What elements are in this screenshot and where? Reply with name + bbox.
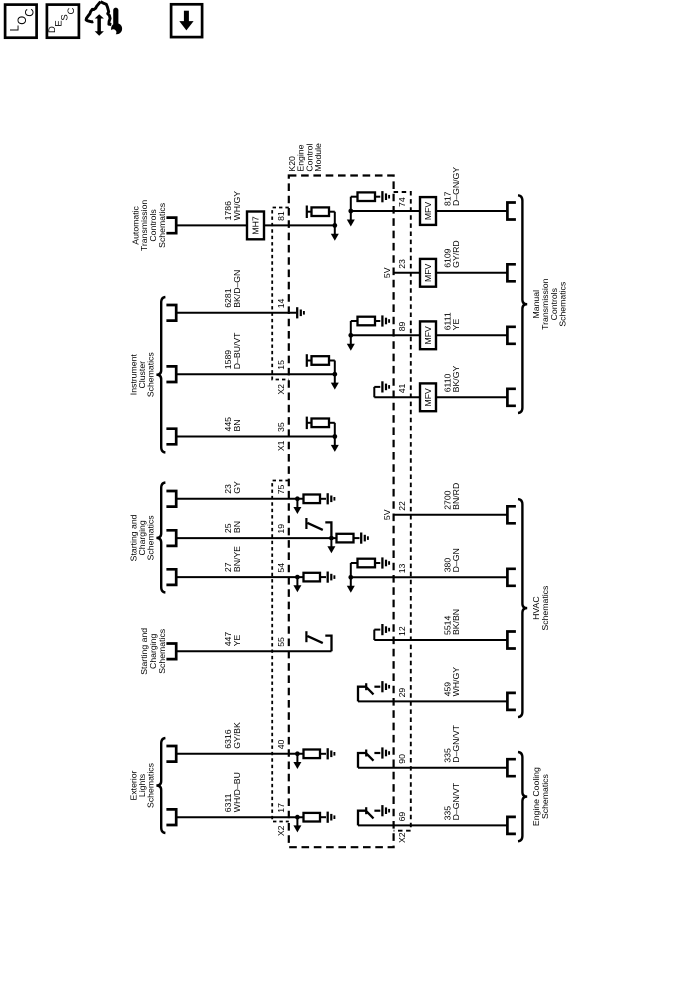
- svg-text:BN: BN: [232, 419, 242, 431]
- label Automatic Transmission Controls Schematics: [130, 200, 166, 251]
- svg-text:WH/GY: WH/GY: [232, 191, 242, 221]
- label wire 380 D–GN: [442, 548, 461, 572]
- ECM internal ground (pin 12): [374, 630, 380, 640]
- label wire 6311 WH/D–BU: [223, 772, 242, 812]
- svg-text:X2: X2: [276, 825, 286, 836]
- label Starting and Charging Schematics: [128, 514, 155, 561]
- off-page connector (pin 74): [507, 203, 516, 220]
- svg-text:Schematics: Schematics: [540, 585, 550, 631]
- svg-text:75: 75: [276, 484, 286, 494]
- svg-text:D–GN/GY: D–GN/GY: [451, 167, 461, 206]
- ground (pin 17): [328, 812, 335, 823]
- svg-text:WH/D–BU: WH/D–BU: [232, 772, 242, 812]
- wire circuit 335 D–GN/VT from pin 90: [358, 767, 507, 769]
- wire: [320, 576, 326, 578]
- label K20 Engine Control Module: [287, 143, 323, 172]
- brace HVAC group: [518, 499, 527, 717]
- label Starting and Charging Schematics (pin 55): [139, 628, 167, 675]
- label wire 6281 BK/D–GN: [223, 270, 242, 308]
- wire circuit 25 BN to pin 19: [176, 537, 336, 539]
- inline connector MH7: [247, 212, 264, 240]
- wire circuit 6109 GY/RD from pin 23: [394, 272, 420, 274]
- svg-text:81: 81: [276, 211, 286, 221]
- svg-text:Schematics: Schematics: [157, 628, 167, 674]
- svg-text:35: 35: [276, 422, 286, 432]
- junction node (pin 17): [295, 815, 300, 820]
- svg-text:55: 55: [276, 637, 286, 647]
- svg-text:D–GN/VT: D–GN/VT: [451, 724, 461, 762]
- signal arrow (pin 15): [331, 374, 339, 389]
- signal arrow (pin 35): [331, 437, 339, 452]
- off-page connector (pin 29): [507, 693, 516, 710]
- ground (pin 74): [382, 191, 389, 202]
- svg-text:54: 54: [276, 563, 286, 573]
- label wire 1786 WH/GY: [223, 191, 242, 221]
- ECM internal resistor to ground (pin 75): [304, 495, 321, 504]
- inline connector MFV (pin 89): [420, 321, 436, 349]
- signal arrow (pin 19): [327, 538, 335, 553]
- ground (pin 75): [328, 493, 335, 504]
- wire: [354, 537, 360, 539]
- label wire 23 GY: [223, 481, 242, 494]
- off-page connector (pin 13): [507, 569, 516, 586]
- off-page connector (pin 14): [166, 305, 176, 321]
- wire circuit 6316 GY/BK to pin 40: [176, 753, 303, 755]
- junction node (pin 81): [332, 223, 337, 228]
- connector X2 dotted box (left top): [272, 208, 289, 380]
- off-page connector (pin 22): [507, 506, 516, 523]
- svg-text:BN/RD: BN/RD: [451, 483, 461, 510]
- svg-text:MFV: MFV: [423, 388, 433, 407]
- ECM internal switch to ground (pin 69): [358, 807, 380, 825]
- junction node (pin 54): [295, 575, 300, 580]
- signal arrow (pin 17): [293, 817, 301, 832]
- wire circuit 459 WH/GY from pin 29: [358, 700, 507, 702]
- svg-text:22: 22: [397, 501, 407, 511]
- junction node (pin 13): [348, 575, 353, 580]
- off-page connector (pin 81): [166, 218, 176, 234]
- connector X2 dotted box (left bottom): [272, 481, 289, 822]
- ground (pin 69): [382, 805, 389, 816]
- off-page connector (pin 23): [507, 264, 516, 281]
- svg-text:BN: BN: [232, 521, 242, 533]
- wire circuit 817 D–GN/GY from pin 74: [351, 210, 420, 212]
- label wire 25 BN: [223, 521, 242, 533]
- svg-text:89: 89: [397, 321, 407, 331]
- brace Instrument Cluster group: [156, 297, 165, 453]
- ECM internal switch (pin 55): [306, 631, 331, 651]
- svg-text:74: 74: [397, 197, 407, 207]
- wire circuit 5514 BK/BN from pin 12: [374, 639, 507, 641]
- brace Exterior Lights group: [156, 738, 165, 833]
- svg-text:Schematics: Schematics: [558, 281, 568, 327]
- svg-text:Schematics: Schematics: [145, 352, 155, 398]
- ground (pin 19): [361, 533, 368, 544]
- svg-text:C: C: [25, 8, 37, 16]
- svg-text:29: 29: [397, 688, 407, 698]
- svg-text:Module: Module: [313, 143, 323, 172]
- svg-text:5V: 5V: [382, 509, 392, 520]
- wire circuit 6111 YE from pin 89: [351, 334, 420, 336]
- svg-text:X2: X2: [397, 832, 407, 843]
- ground (pin 89): [382, 315, 389, 326]
- inline connector MFV (pin 74): [420, 197, 436, 225]
- signal arrow (pin 75): [293, 499, 301, 514]
- ground (pin 90): [382, 747, 389, 758]
- label HVAC Schematics: [531, 585, 550, 631]
- label wire 5514 BK/BN: [442, 609, 461, 635]
- svg-text:23: 23: [397, 259, 407, 269]
- wire: [320, 816, 326, 818]
- wire circuit 27 BN/YE to pin 54: [176, 576, 303, 578]
- wire circuit 445 BN to pin 35: [176, 436, 335, 438]
- svg-text:41: 41: [397, 383, 407, 393]
- off-page connector (pin 55): [166, 644, 176, 660]
- svg-text:YE: YE: [232, 635, 242, 647]
- ECM internal pull-up resistor (pin 81): [307, 206, 335, 226]
- ground (pin 14): [297, 307, 304, 318]
- label wire 6110 BK/GY: [442, 366, 461, 393]
- ECM internal pull-up resistor (pin 15): [307, 354, 335, 374]
- svg-text:MFV: MFV: [423, 263, 433, 282]
- label wire 6316 GY/BK: [223, 722, 242, 749]
- off-page connector (pin 69): [507, 817, 516, 834]
- junction node (pin 19): [329, 536, 334, 541]
- ECM internal pull-up resistor (pin 35): [307, 417, 335, 437]
- svg-text:D–BU/VT: D–BU/VT: [232, 332, 242, 369]
- label wire 335 D–GN/VT: [442, 782, 461, 820]
- svg-text:D–GN/VT: D–GN/VT: [451, 782, 461, 820]
- inline connector MFV (pin 23): [420, 259, 436, 287]
- svg-text:Schematics: Schematics: [157, 202, 167, 248]
- svg-text:Schematics: Schematics: [540, 773, 550, 819]
- off-page connector (pin 15): [166, 366, 176, 382]
- wire: [320, 498, 326, 500]
- off-page connector (pin 17): [166, 809, 176, 825]
- svg-text:69: 69: [397, 812, 407, 822]
- off-page connector (pin 90): [507, 759, 516, 776]
- ECM internal switch to ground (pin 90): [358, 750, 380, 768]
- icon vehicle outline with up-down arrow and wrench: [86, 2, 122, 36]
- svg-text:5V: 5V: [382, 267, 392, 278]
- off-page connector (pin 19): [166, 530, 176, 546]
- svg-text:X1: X1: [276, 440, 286, 451]
- junction node (pin 74): [348, 209, 353, 214]
- label wire 2700 BN/RD: [442, 483, 461, 510]
- wire circuit 6311 WH/D–BU to pin 17: [176, 816, 303, 818]
- signal arrow (pin 54): [293, 577, 301, 592]
- junction node (pin 89): [348, 333, 353, 338]
- ECM internal switch (pin 19): [306, 518, 331, 538]
- junction node (pin 40): [295, 751, 300, 756]
- off-page connector (pin 35): [166, 429, 176, 445]
- svg-text:MH7: MH7: [251, 216, 261, 235]
- label wire 335 D–GN/VT: [442, 724, 461, 762]
- ground (pin 29): [382, 681, 389, 692]
- svg-text:19: 19: [276, 524, 286, 534]
- wire: [436, 396, 507, 398]
- ECM internal pull-up resistor to ground (pin 89): [351, 317, 381, 336]
- label wire 27 BN/YE: [223, 546, 242, 572]
- inline connector MFV (pin 41): [420, 383, 436, 411]
- svg-text:X2: X2: [276, 384, 286, 395]
- wire circuit 1589 D–BU/VT to pin 15: [176, 373, 335, 375]
- icon down-arrow box: [171, 4, 202, 37]
- junction node (pin 15): [332, 372, 337, 377]
- svg-text:MFV: MFV: [423, 202, 433, 221]
- off-page connector (pin 41): [507, 389, 516, 406]
- brace Starting and Charging group: [156, 483, 165, 593]
- wire circuit 2700 BN/RD from pin 22: [394, 514, 508, 516]
- svg-text:40: 40: [276, 739, 286, 749]
- off-page connector (pin 89): [507, 327, 516, 344]
- wire circuit 23 GY to pin 75: [176, 498, 303, 500]
- wire circuit 6110 BK/GY from pin 41: [374, 396, 420, 398]
- svg-text:BK/BN: BK/BN: [451, 609, 461, 635]
- wire circuit 380 D–GN from pin 13: [351, 576, 508, 578]
- off-page connector (pin 40): [166, 746, 176, 762]
- svg-text:GY/BK: GY/BK: [232, 722, 242, 749]
- svg-text:BK/D–GN: BK/D–GN: [232, 270, 242, 308]
- signal arrow (pin 13): [347, 577, 355, 593]
- svg-text:GY/RD: GY/RD: [451, 240, 461, 268]
- svg-text:YE: YE: [451, 319, 461, 331]
- svg-text:WH/GY: WH/GY: [451, 667, 461, 697]
- signal arrow (pin 81): [331, 225, 339, 240]
- ground (pin 40): [328, 748, 335, 759]
- icon LOC box: [5, 5, 37, 38]
- junction node (pin 35): [332, 434, 337, 439]
- wire: [436, 272, 507, 274]
- ECM internal switch to ground (pin 29): [358, 683, 380, 701]
- brace Manual Transmission group: [518, 195, 527, 413]
- signal arrow (pin 74): [347, 211, 355, 227]
- svg-text:BN/YE: BN/YE: [232, 546, 242, 572]
- svg-text:BK/GY: BK/GY: [451, 366, 461, 393]
- svg-text:14: 14: [276, 298, 286, 308]
- brace Engine Cooling group: [518, 752, 527, 841]
- label wire 445 BN: [223, 417, 242, 432]
- svg-text:Schematics: Schematics: [145, 515, 155, 561]
- ECM internal pull-up resistor to ground (pin 74): [351, 192, 381, 211]
- label Manual Transmission Controls Schematics: [531, 278, 567, 329]
- off-page connector (pin 12): [507, 632, 516, 649]
- svg-text:C: C: [66, 7, 77, 14]
- wire circuit 447 YE to pin 55: [176, 650, 331, 652]
- label Engine Cooling Schematics: [531, 767, 550, 826]
- signal arrow (pin 40): [293, 754, 301, 769]
- off-page connector (pin 75): [166, 491, 176, 507]
- ECM internal resistor to ground (pin 54): [304, 573, 321, 582]
- svg-text:90: 90: [397, 754, 407, 764]
- label Exterior Lights Schematics: [128, 762, 155, 808]
- wire: [436, 334, 507, 336]
- label wire 6109 GY/RD: [442, 240, 461, 268]
- svg-text:12: 12: [397, 626, 407, 636]
- svg-text:MFV: MFV: [423, 326, 433, 345]
- ECM internal resistor to ground (pin 40): [304, 750, 321, 759]
- label wire 447 YE: [223, 632, 242, 647]
- svg-text:15: 15: [276, 360, 286, 370]
- ECM internal resistor to ground (pin 19): [337, 534, 354, 543]
- ECM internal pull-up resistor to ground (pin 13): [351, 559, 381, 578]
- wire circuit 1786 WH/GY to pin 81: [176, 224, 335, 226]
- label wire 6111 YE: [442, 312, 461, 330]
- wire circuit 6281 BK/D–GN to pin 14: [176, 312, 296, 314]
- ECM internal ground (pin 41): [374, 387, 380, 397]
- svg-text:GY: GY: [232, 481, 242, 494]
- wire circuit 335 D–GN/VT from pin 69: [358, 824, 507, 826]
- svg-text:D–GN: D–GN: [451, 548, 461, 572]
- connector X2 dotted box (right): [394, 192, 411, 831]
- off-page connector (pin 54): [166, 569, 176, 585]
- label Instrument Cluster Schematics: [128, 352, 155, 398]
- wire: [436, 210, 507, 212]
- wire: [320, 753, 326, 755]
- ECM internal resistor to ground (pin 17): [304, 813, 321, 822]
- ground (pin 13): [382, 557, 389, 568]
- junction node (pin 75): [295, 496, 300, 501]
- svg-text:13: 13: [397, 563, 407, 573]
- label wire 1589 D–BU/VT: [223, 332, 242, 369]
- signal arrow (pin 89): [347, 335, 355, 351]
- ECM K20 dashed boundary box: [289, 176, 394, 848]
- label wire 817 D–GN/GY: [442, 167, 461, 206]
- svg-text:17: 17: [276, 803, 286, 813]
- label wire 459 WH/GY: [442, 667, 461, 697]
- ground (pin 54): [328, 572, 335, 583]
- svg-text:Schematics: Schematics: [145, 762, 155, 808]
- icon DESC box: [47, 5, 79, 38]
